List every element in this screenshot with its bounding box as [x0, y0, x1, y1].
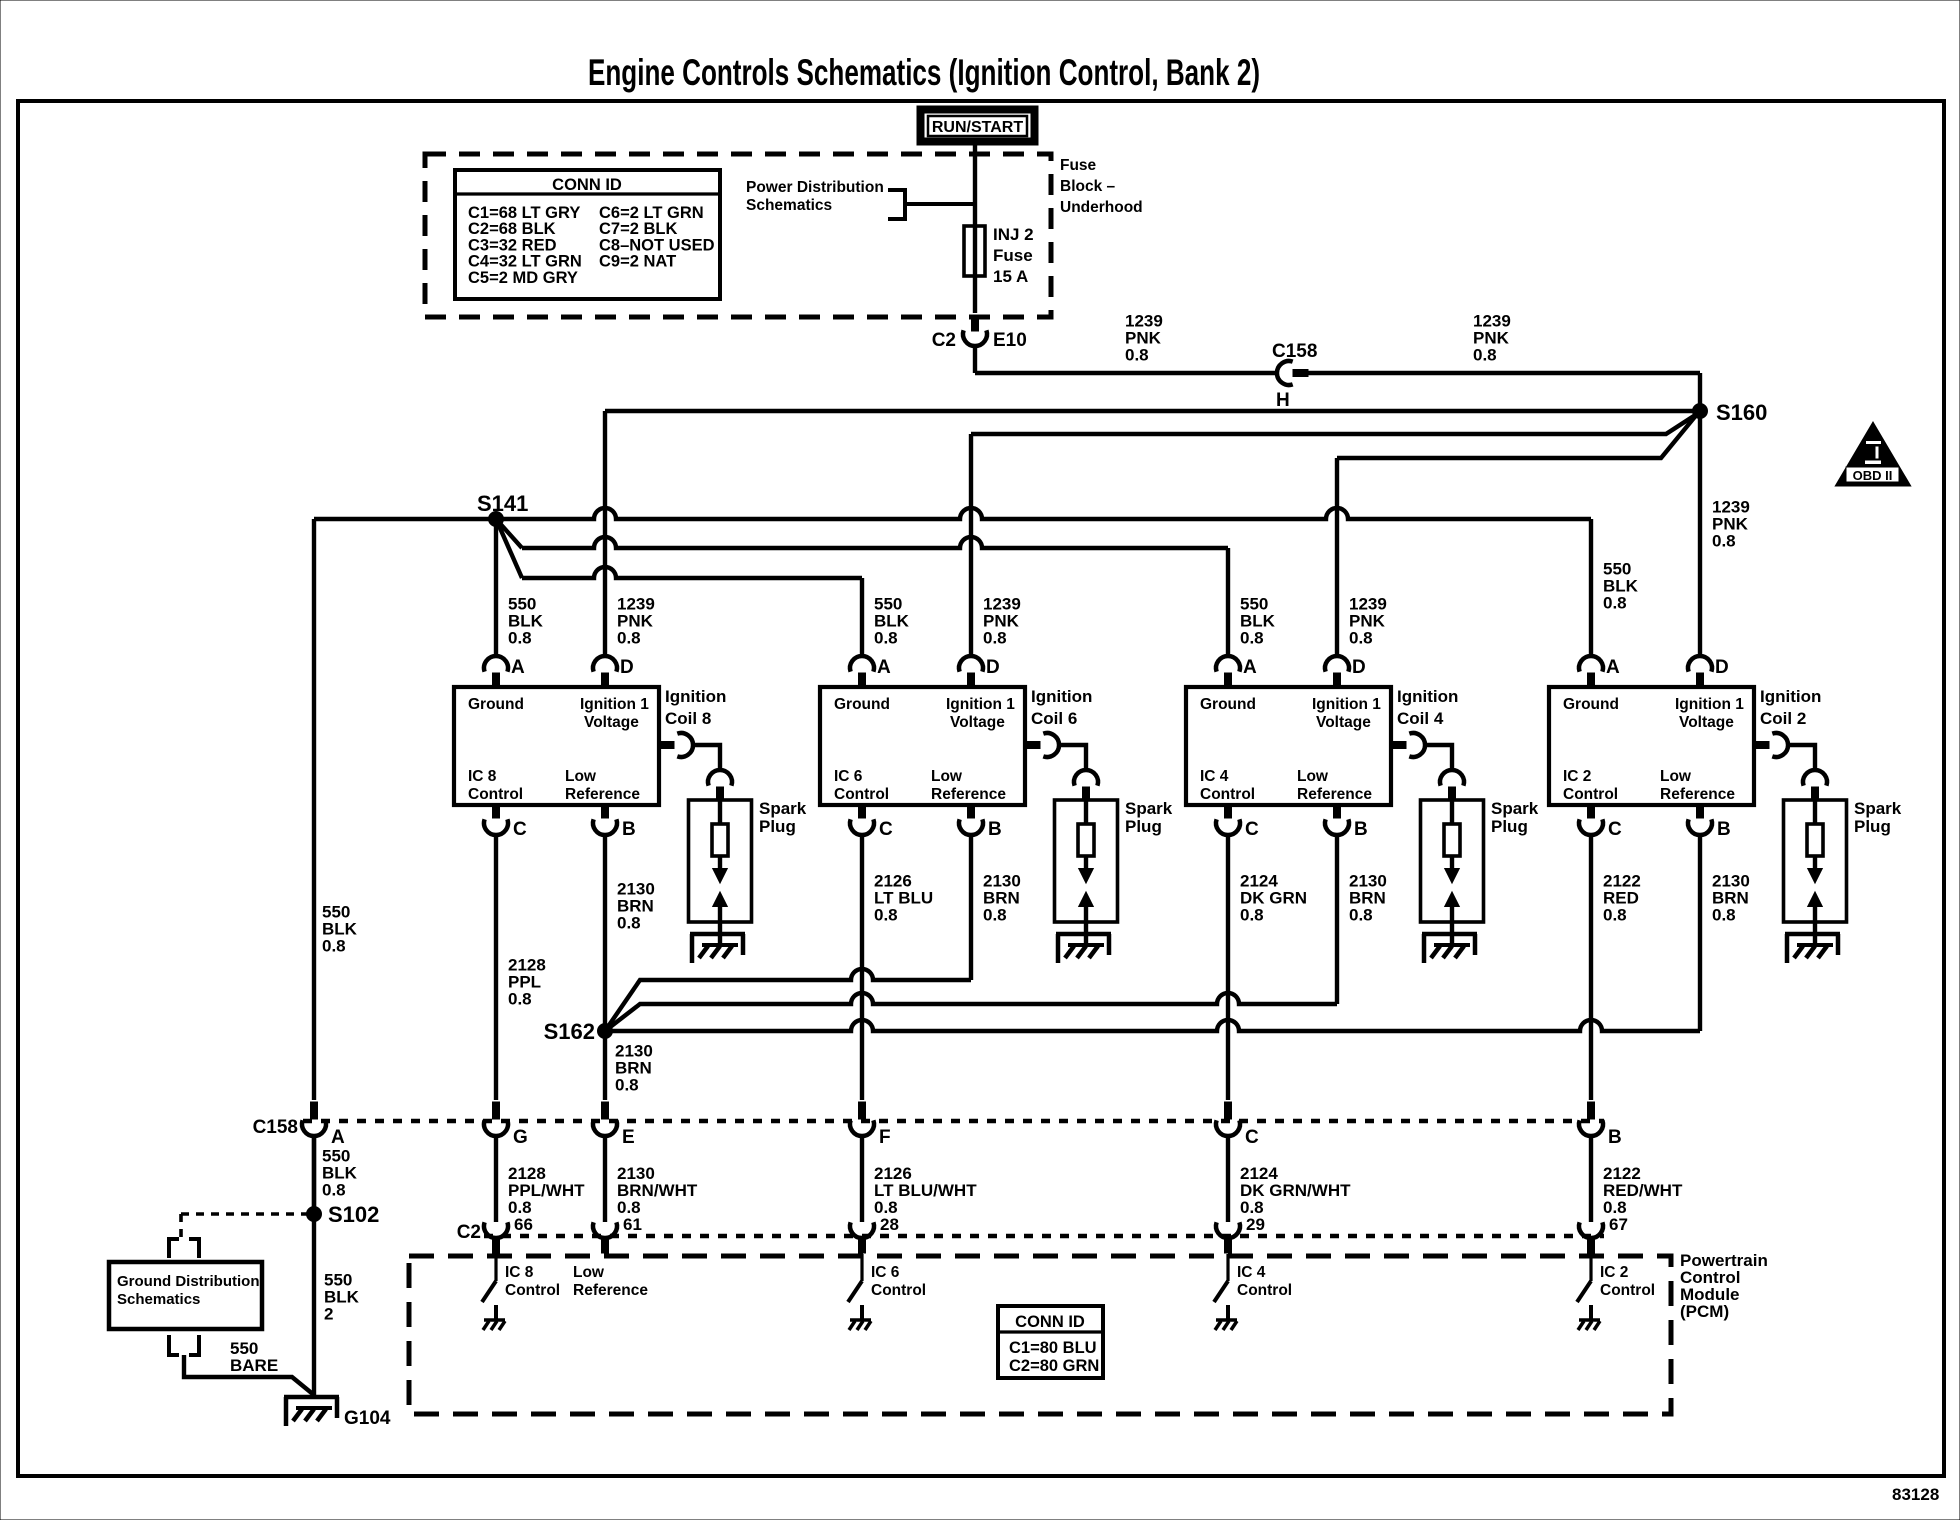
svg-text:Voltage: Voltage — [584, 714, 639, 731]
svg-text:0.8: 0.8 — [615, 1076, 639, 1095]
svg-text:B: B — [1354, 819, 1368, 840]
svg-text:G104: G104 — [344, 1408, 391, 1429]
svg-text:Control: Control — [1563, 786, 1618, 803]
svg-text:Low: Low — [565, 768, 597, 785]
svg-text:0.8: 0.8 — [1125, 346, 1149, 365]
svg-text:Control: Control — [834, 786, 889, 803]
svg-text:Low: Low — [1297, 768, 1329, 785]
svg-text:A: A — [1606, 657, 1620, 678]
svg-text:Low: Low — [931, 768, 963, 785]
svg-text:Coil 2: Coil 2 — [1760, 709, 1806, 728]
svg-text:Coil 8: Coil 8 — [665, 709, 711, 728]
svg-text:D: D — [1715, 657, 1729, 678]
svg-text:IC 4: IC 4 — [1200, 768, 1229, 785]
svg-text:INJ 2: INJ 2 — [993, 225, 1034, 244]
svg-text:CONN ID: CONN ID — [552, 176, 622, 194]
svg-text:0.8: 0.8 — [1603, 594, 1627, 613]
svg-text:IC 6: IC 6 — [871, 1264, 900, 1281]
svg-text:Spark: Spark — [1491, 799, 1539, 818]
svg-text:Reference: Reference — [573, 1282, 648, 1299]
svg-text:C158: C158 — [1272, 341, 1317, 362]
svg-text:S162: S162 — [544, 1019, 595, 1044]
svg-text:Ignition 1: Ignition 1 — [946, 696, 1015, 713]
svg-text:0.8: 0.8 — [874, 906, 898, 925]
svg-text:IC 6: IC 6 — [834, 768, 863, 785]
svg-text:S141: S141 — [477, 491, 528, 516]
svg-text:E10: E10 — [993, 330, 1027, 351]
svg-text:0.8: 0.8 — [322, 937, 346, 956]
svg-text:S102: S102 — [328, 1202, 379, 1227]
svg-text:Voltage: Voltage — [1316, 714, 1371, 731]
svg-text:0.8: 0.8 — [1603, 906, 1627, 925]
svg-text:CONN ID: CONN ID — [1015, 1313, 1085, 1331]
svg-text:66: 66 — [514, 1215, 533, 1234]
svg-text:2: 2 — [324, 1305, 333, 1324]
svg-text:D: D — [620, 657, 634, 678]
svg-text:Ground: Ground — [1563, 696, 1619, 713]
svg-text:Ground Distribution: Ground Distribution — [117, 1273, 259, 1290]
svg-text:C2: C2 — [457, 1222, 481, 1243]
svg-text:Control: Control — [871, 1282, 926, 1299]
svg-text:Ground: Ground — [834, 696, 890, 713]
svg-text:F: F — [879, 1127, 891, 1148]
svg-text:IC 2: IC 2 — [1600, 1264, 1628, 1281]
svg-text:0.8: 0.8 — [983, 629, 1007, 648]
svg-text:0.8: 0.8 — [874, 629, 898, 648]
svg-text:C5=2 MD GRY: C5=2 MD GRY — [468, 269, 578, 287]
svg-text:61: 61 — [623, 1215, 642, 1234]
svg-text:Ignition: Ignition — [1760, 687, 1821, 706]
svg-text:83128: 83128 — [1892, 1485, 1939, 1504]
svg-text:Control: Control — [468, 786, 523, 803]
svg-text:67: 67 — [1609, 1215, 1628, 1234]
svg-text:0.8: 0.8 — [508, 990, 532, 1009]
svg-text:28: 28 — [880, 1215, 899, 1234]
svg-text:Block –: Block – — [1060, 178, 1116, 195]
svg-text:0.8: 0.8 — [617, 914, 641, 933]
svg-text:Fuse: Fuse — [1060, 157, 1097, 174]
svg-text:BARE: BARE — [230, 1356, 278, 1375]
svg-text:B: B — [1717, 819, 1731, 840]
svg-text:0.8: 0.8 — [1349, 906, 1373, 925]
svg-text:A: A — [511, 657, 525, 678]
svg-text:A: A — [877, 657, 891, 678]
svg-text:Low: Low — [1660, 768, 1692, 785]
svg-text:(PCM): (PCM) — [1680, 1302, 1729, 1321]
svg-text:0.8: 0.8 — [1349, 629, 1373, 648]
svg-text:Ignition 1: Ignition 1 — [1675, 696, 1744, 713]
svg-text:Plug: Plug — [1491, 817, 1528, 836]
svg-text:E: E — [622, 1127, 635, 1148]
svg-text:G: G — [513, 1127, 528, 1148]
svg-text:B: B — [622, 819, 636, 840]
svg-text:Schematics: Schematics — [117, 1291, 200, 1308]
svg-text:RUN/START: RUN/START — [932, 119, 1023, 136]
svg-text:Ignition 1: Ignition 1 — [580, 696, 649, 713]
svg-text:Ignition: Ignition — [1031, 687, 1092, 706]
svg-text:Spark: Spark — [759, 799, 807, 818]
svg-text:A: A — [1243, 657, 1257, 678]
svg-text:Voltage: Voltage — [950, 714, 1005, 731]
svg-text:Reference: Reference — [931, 786, 1006, 803]
svg-text:C1=80 BLU: C1=80 BLU — [1009, 1339, 1097, 1357]
svg-text:A: A — [331, 1127, 345, 1148]
svg-text:Reference: Reference — [1660, 786, 1735, 803]
svg-text:0.8: 0.8 — [1473, 346, 1497, 365]
svg-text:Control: Control — [1200, 786, 1255, 803]
svg-text:Plug: Plug — [1125, 817, 1162, 836]
svg-text:C: C — [879, 819, 893, 840]
svg-text:0.8: 0.8 — [983, 906, 1007, 925]
svg-text:C: C — [1245, 1127, 1259, 1148]
svg-text:D: D — [986, 657, 1000, 678]
svg-text:15 A: 15 A — [993, 267, 1028, 286]
svg-text:Coil 6: Coil 6 — [1031, 709, 1077, 728]
svg-text:D: D — [1352, 657, 1366, 678]
svg-text:0.8: 0.8 — [508, 629, 532, 648]
svg-text:C: C — [1245, 819, 1259, 840]
svg-text:Control: Control — [1237, 1282, 1292, 1299]
svg-text:0.8: 0.8 — [1240, 629, 1264, 648]
svg-text:C9=2 NAT: C9=2 NAT — [599, 253, 676, 271]
svg-text:0.8: 0.8 — [617, 629, 641, 648]
svg-text:Engine Controls Schematics (Ig: Engine Controls Schematics (Ignition Con… — [588, 52, 1260, 93]
svg-text:Reference: Reference — [1297, 786, 1372, 803]
svg-text:H: H — [1276, 390, 1290, 411]
svg-text:Plug: Plug — [1854, 817, 1891, 836]
svg-text:Fuse: Fuse — [993, 246, 1033, 265]
svg-text:0.8: 0.8 — [1240, 906, 1264, 925]
svg-text:B: B — [988, 819, 1002, 840]
svg-text:C2=80 GRN: C2=80 GRN — [1009, 1357, 1099, 1375]
svg-text:Low: Low — [573, 1264, 605, 1281]
svg-text:IC 2: IC 2 — [1563, 768, 1591, 785]
svg-text:B: B — [1608, 1127, 1622, 1148]
svg-text:Ignition 1: Ignition 1 — [1312, 696, 1381, 713]
svg-text:OBD II: OBD II — [1853, 468, 1893, 483]
svg-text:Schematics: Schematics — [746, 197, 832, 214]
svg-text:Coil 4: Coil 4 — [1397, 709, 1444, 728]
svg-text:Plug: Plug — [759, 817, 796, 836]
svg-text:Power Distribution: Power Distribution — [746, 179, 884, 196]
svg-text:Voltage: Voltage — [1679, 714, 1734, 731]
svg-text:Control: Control — [1600, 1282, 1655, 1299]
svg-text:Spark: Spark — [1854, 799, 1902, 818]
svg-text:Ground: Ground — [1200, 696, 1256, 713]
svg-text:0.8: 0.8 — [322, 1181, 346, 1200]
svg-text:IC 8: IC 8 — [505, 1264, 534, 1281]
svg-text:C158: C158 — [253, 1117, 298, 1138]
svg-text:Control: Control — [505, 1282, 560, 1299]
svg-text:Ground: Ground — [468, 696, 524, 713]
svg-text:29: 29 — [1246, 1215, 1265, 1234]
svg-text:C: C — [1608, 819, 1622, 840]
svg-text:Spark: Spark — [1125, 799, 1173, 818]
svg-text:IC 8: IC 8 — [468, 768, 497, 785]
svg-text:Underhood: Underhood — [1060, 199, 1143, 216]
svg-text:Ignition: Ignition — [1397, 687, 1458, 706]
svg-text:Ignition: Ignition — [665, 687, 726, 706]
svg-text:IC 4: IC 4 — [1237, 1264, 1266, 1281]
svg-text:C: C — [513, 819, 527, 840]
svg-text:C2: C2 — [932, 330, 956, 351]
svg-text:0.8: 0.8 — [1712, 906, 1736, 925]
svg-text:Reference: Reference — [565, 786, 640, 803]
svg-text:S160: S160 — [1716, 400, 1767, 425]
svg-text:0.8: 0.8 — [1712, 532, 1736, 551]
